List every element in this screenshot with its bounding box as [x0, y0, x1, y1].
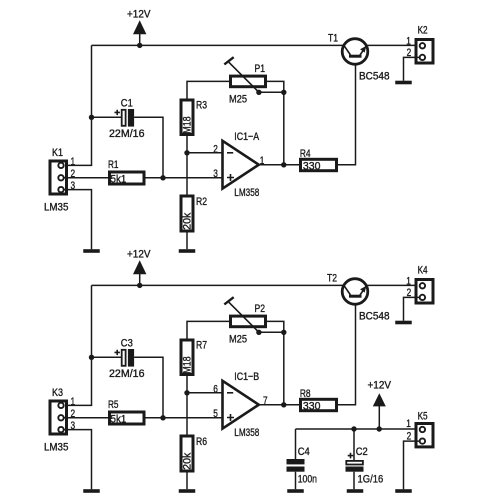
svg-text:LM358: LM358 [234, 427, 259, 439]
svg-text:R2: R2 [196, 196, 207, 208]
svg-text:330: 330 [303, 161, 321, 173]
node +12V tap [377, 426, 382, 431]
wire R2 bottom to ground [186, 233, 188, 250]
svg-text:K1: K1 [52, 147, 63, 159]
svg-text:20k: 20k [182, 212, 194, 229]
svg-text:P2: P2 [255, 303, 266, 315]
resistor R4 [300, 148, 337, 173]
wire +12V rail bottom [92, 284, 345, 286]
svg-text:P1: P1 [255, 63, 266, 75]
wire P2 right terminal down to output [267, 321, 284, 404]
ground K1 pin3 [83, 249, 100, 253]
op-amp U1 IC1-A [223, 131, 260, 199]
svg-text:K2: K2 [418, 24, 428, 36]
svg-text:LM35: LM35 [44, 202, 68, 214]
ground K4 [395, 321, 412, 325]
wire K5 pin2 to ground [404, 441, 420, 489]
svg-text:1G/16: 1G/16 [358, 474, 384, 486]
wire K2 pin2 to ground [404, 57, 420, 80]
wire C1 left lead [92, 116, 122, 118]
node C2 tap [351, 426, 356, 431]
wire K3 pin2 to R5 [64, 417, 108, 419]
svg-text:1: 1 [406, 36, 411, 48]
wire C3 left lead [92, 356, 122, 358]
ground K5 [395, 489, 412, 493]
svg-text:1: 1 [406, 276, 411, 288]
op-amp U2 IC1-B [223, 371, 260, 439]
ground C4 [287, 489, 304, 493]
node C1/+12V tap [89, 115, 94, 120]
wire R6 bottom to ground [186, 473, 188, 490]
svg-text:LM358: LM358 [234, 187, 259, 199]
svg-text:+12V: +12V [127, 249, 151, 261]
node P2 wiper junction [256, 330, 261, 335]
ground R2 [179, 249, 196, 253]
node R3/R2/pin2 junction [184, 150, 189, 155]
wire C3 right lead down to R5 output node [134, 357, 163, 418]
wire op-amp output to R8 [259, 404, 301, 406]
wire P1 wiper to right [259, 91, 284, 93]
connector K2 [416, 24, 433, 63]
svg-text:100n: 100n [298, 474, 317, 486]
node P1/output junction [281, 162, 286, 167]
wire C4 top lead [295, 429, 297, 459]
svg-text:1: 1 [71, 156, 76, 168]
wire R8 to T2 base [338, 297, 356, 405]
power +12V symbol top [127, 9, 151, 46]
node C3/R5 junction [160, 415, 165, 420]
resistor R5 [108, 399, 144, 426]
svg-text:LM35: LM35 [44, 442, 68, 454]
potentiometer P2 [224, 297, 265, 345]
svg-text:22M/16: 22M/16 [109, 128, 145, 140]
potentiometer P1 [224, 57, 265, 105]
svg-text:1: 1 [406, 418, 411, 430]
wire K1 pin1 to +12V rail [64, 45, 92, 165]
capacitor C4 [287, 446, 318, 485]
svg-text:R4: R4 [300, 148, 311, 160]
wire K3 pin1 to +12V rail [64, 285, 92, 405]
svg-text:M18: M18 [182, 116, 194, 133]
svg-text:M18: M18 [182, 356, 194, 373]
wire T2 emitter to K4 pin1 [366, 284, 419, 286]
resistor R1 [108, 159, 144, 186]
node P1 wiper junction [256, 90, 261, 95]
wire T1 emitter to K2 pin1 [366, 44, 419, 46]
node rail/+12V junction [137, 43, 142, 48]
svg-text:BC548: BC548 [359, 71, 390, 83]
node R7/R6/pin6 junction [184, 390, 189, 395]
wire +12V rail top [92, 44, 345, 46]
svg-text:3: 3 [213, 168, 218, 180]
wire op-amp pin6 [187, 392, 223, 394]
svg-text:M25: M25 [229, 94, 247, 106]
wire op-amp pin2 [187, 152, 223, 154]
capacitor C2 [346, 446, 384, 485]
wire C4 bottom lead [295, 472, 297, 490]
wire C2 bottom lead [353, 472, 355, 490]
svg-text:6: 6 [213, 383, 218, 395]
wire R1 to op-amp pin3 [146, 177, 223, 179]
svg-text:T2: T2 [327, 273, 337, 285]
wire R3 bottom to R2 top [186, 136, 188, 196]
svg-text:BC548: BC548 [359, 311, 390, 323]
wire P2 left to R7 top [187, 321, 229, 338]
svg-text:1: 1 [71, 396, 76, 408]
svg-text:+12V: +12V [127, 9, 151, 21]
wire P1 left to R3 top [187, 81, 229, 98]
resistor R6 [181, 436, 207, 471]
wire K1 pin3 to ground [64, 190, 92, 250]
connector K3 [44, 387, 68, 454]
power +12V symbol right [368, 379, 392, 429]
svg-text:R5: R5 [108, 399, 119, 411]
power +12V symbol bottom-left [127, 249, 151, 286]
wire K1 pin2 to R1 [64, 177, 108, 179]
svg-text:22M/16: 22M/16 [109, 368, 145, 380]
svg-text:M25: M25 [229, 334, 247, 346]
node P1 right/wiper junction [281, 90, 286, 95]
connector K4 [416, 264, 433, 303]
svg-text:C2: C2 [356, 446, 368, 458]
svg-text:K4: K4 [418, 264, 428, 276]
ground K2 [395, 81, 412, 85]
resistor R3 [181, 99, 207, 134]
wire R4 to T1 base [338, 57, 356, 165]
wire op-amp output to R4 [259, 164, 301, 166]
wire R7 bottom to R6 top [186, 376, 188, 436]
svg-text:IC1−B: IC1−B [234, 371, 259, 383]
ground C2 [347, 489, 364, 493]
node rail2/+12V junction [137, 283, 142, 288]
node P2 right/wiper junction [281, 330, 286, 335]
wire P1 right terminal down to output [267, 81, 284, 164]
transistor Q2 T2 [327, 273, 390, 323]
resistor R2 [181, 196, 207, 231]
svg-text:20k: 20k [182, 452, 194, 469]
transistor Q1 T1 [328, 33, 390, 83]
wire supply rail to K5 pin1 [296, 428, 420, 430]
wire C2 top lead [353, 429, 355, 461]
node C3/+12V tap [89, 355, 94, 360]
wire K3 pin3 to ground [64, 430, 92, 490]
svg-text:330: 330 [303, 401, 321, 413]
svg-text:T1: T1 [328, 33, 338, 45]
node P2/output junction [281, 402, 286, 407]
svg-text:+12V: +12V [368, 379, 392, 391]
ground K3 pin3 [83, 489, 100, 493]
connector K5 [416, 410, 433, 447]
connector K1 [44, 147, 68, 214]
svg-text:R1: R1 [108, 159, 119, 171]
svg-text:K5: K5 [418, 410, 428, 422]
resistor R7 [181, 339, 207, 374]
resistor R8 [300, 388, 337, 413]
svg-text:5k1: 5k1 [111, 174, 127, 186]
svg-text:R6: R6 [196, 436, 207, 448]
svg-text:R8: R8 [300, 388, 311, 400]
wire K4 pin2 to ground [404, 297, 420, 320]
svg-text:IC1−A: IC1−A [234, 131, 259, 143]
svg-text:5: 5 [213, 408, 218, 420]
svg-text:C3: C3 [121, 338, 133, 350]
capacitor C3 [109, 338, 145, 380]
svg-text:R3: R3 [196, 99, 207, 111]
node C1/R1 junction [160, 175, 165, 180]
wire R5 to op-amp pin5 [146, 417, 223, 419]
wire P2 wiper to right [259, 331, 284, 333]
svg-text:C1: C1 [121, 98, 133, 110]
svg-text:K3: K3 [52, 387, 63, 399]
ground R6 [179, 489, 196, 493]
svg-text:2: 2 [213, 143, 218, 155]
svg-text:5k1: 5k1 [111, 414, 127, 426]
svg-text:C4: C4 [298, 446, 310, 458]
svg-text:R7: R7 [196, 339, 207, 351]
wire C1 right lead down to R1 output node [134, 117, 163, 178]
capacitor C1 [109, 98, 145, 140]
